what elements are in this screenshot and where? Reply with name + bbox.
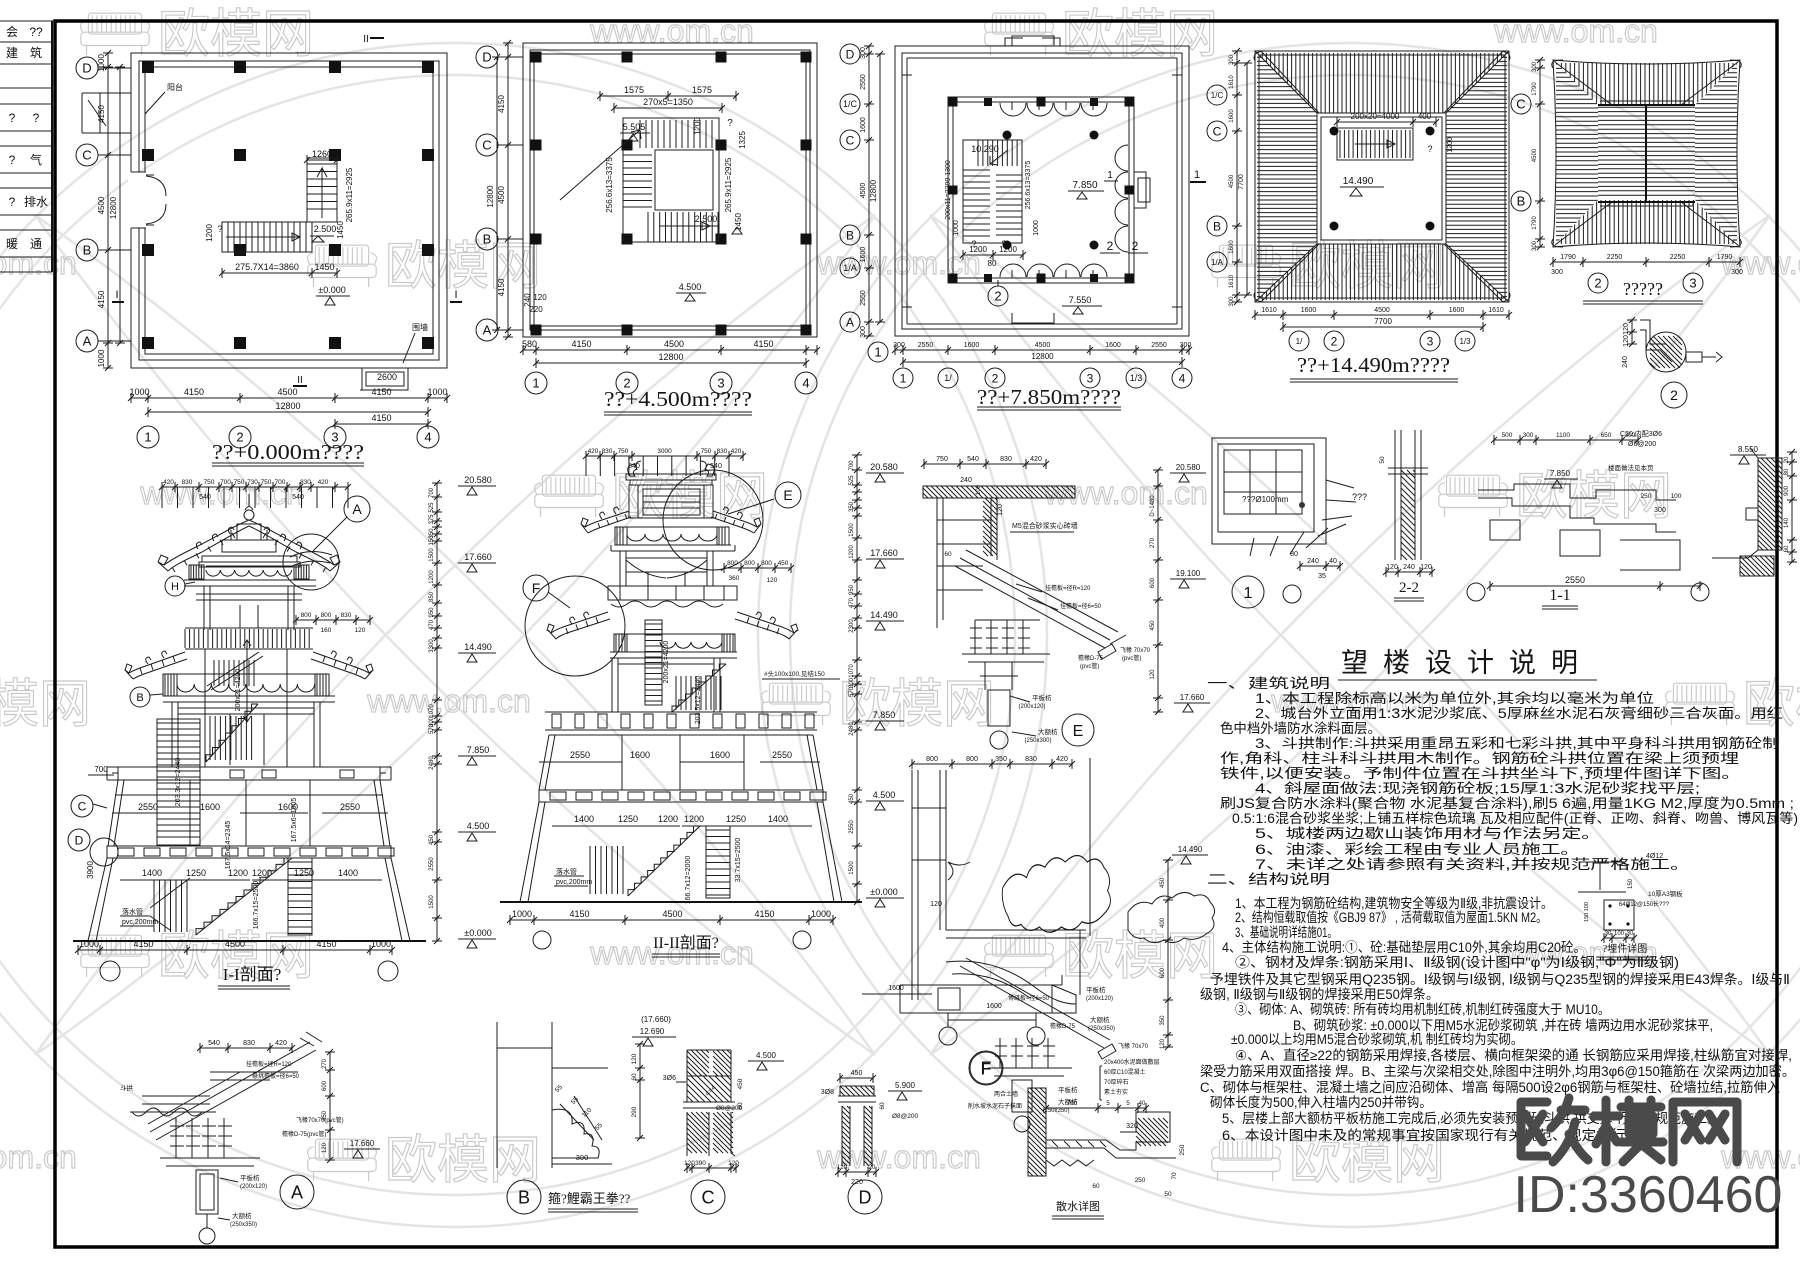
svg-text:1600: 1600 [200, 802, 220, 812]
svg-text:1200: 1200 [849, 545, 855, 559]
watermark circles [0, 43, 1047, 1227]
svg-text:20x400水泥面做敷层: 20x400水泥面做敷层 [1104, 1058, 1160, 1066]
left title strip [51, 21, 53, 272]
elevation I-I section [68, 475, 496, 989]
svg-text:420: 420 [588, 448, 599, 455]
svg-text:4500: 4500 [497, 186, 506, 204]
svg-text:2、城台外立面用1:3水泥沙浆底、5厚麻丝水泥石灰膏细砂三合: 2、城台外立面用1:3水泥沙浆底、5厚麻丝水泥石灰膏细砂三合灰面。用红 [1255, 705, 1783, 721]
svg-text:1070: 1070 [429, 704, 435, 718]
svg-text:80: 80 [1290, 551, 1298, 558]
svg-text:1400: 1400 [338, 868, 358, 878]
svg-text:斗拱: 斗拱 [120, 1083, 134, 1092]
svg-text:2480: 2480 [849, 722, 855, 736]
svg-text:800: 800 [727, 560, 738, 567]
svg-text:120: 120 [355, 627, 366, 634]
svg-text:筑: 筑 [30, 45, 42, 60]
svg-text:1500: 1500 [429, 895, 435, 909]
svg-text:700: 700 [429, 487, 435, 498]
svg-text:1450: 1450 [734, 213, 743, 231]
svg-text:1000: 1000 [1033, 220, 1040, 236]
svg-text:1/3: 1/3 [1459, 337, 1471, 346]
svg-text:80: 80 [1784, 468, 1790, 475]
svg-text:7.850: 7.850 [873, 710, 896, 720]
big site logo (hand-drawn strokes) [1521, 1098, 1737, 1162]
svg-text:1400: 1400 [142, 868, 162, 878]
svg-text:飞椽70x70(pvc管): 飞椽70x70(pvc管) [296, 1116, 344, 1124]
svg-text:欧模网: 欧模网 [839, 676, 995, 734]
svg-text:470: 470 [429, 619, 435, 630]
svg-text:作,角科、柱斗科斗拱用木制作。钢筋砼斗拱位置在梁上须预埋: 作,角科、柱斗科斗拱用木制作。钢筋砼斗拱位置在梁上须预埋 [1220, 750, 1739, 766]
svg-text:200x21=4200: 200x21=4200 [235, 669, 242, 712]
svg-text:1100: 1100 [1556, 432, 1570, 439]
svg-text:300: 300 [1551, 269, 1563, 276]
svg-text:D~1480: D~1480 [1150, 495, 1156, 517]
svg-text:200x20=4000: 200x20=4000 [1351, 112, 1400, 121]
svg-text:450: 450 [322, 1110, 328, 1121]
svg-text:欧模网: 欧模网 [612, 468, 768, 526]
svg-text:1000: 1000 [953, 220, 960, 236]
svg-text:150: 150 [429, 535, 435, 546]
svg-text:平板枋: 平板枋 [1032, 693, 1052, 702]
svg-text:1450: 1450 [336, 221, 345, 239]
svg-text:1000: 1000 [129, 387, 149, 397]
svg-text:C: C [1213, 124, 1222, 138]
svg-text:60: 60 [879, 1102, 886, 1110]
svg-text:2550: 2550 [429, 857, 435, 871]
svg-text:120: 120 [930, 901, 942, 908]
svg-text:气: 气 [30, 152, 42, 167]
svg-text:450: 450 [737, 1078, 744, 1089]
svg-text:飞椽 70x70: 飞椽 70x70 [1118, 1042, 1149, 1050]
svg-text:14.490: 14.490 [1343, 176, 1374, 187]
svg-text:12.690: 12.690 [640, 1027, 665, 1036]
svg-text:C: C [702, 1188, 715, 1208]
svg-text:240: 240 [1403, 564, 1415, 571]
svg-text:700: 700 [849, 460, 855, 471]
svg-text:800: 800 [321, 612, 332, 619]
svg-text:1/C: 1/C [843, 99, 858, 109]
svg-text:??+4.500m????: ??+4.500m???? [604, 387, 752, 411]
svg-text:4: 4 [424, 430, 431, 445]
svg-text:900: 900 [1784, 485, 1790, 496]
svg-text:??: ?? [29, 25, 43, 39]
svg-text:4.500: 4.500 [756, 1051, 777, 1060]
svg-text:一、建筑说明: 一、建筑说明 [1207, 676, 1330, 691]
svg-text:(250x350): (250x350) [1088, 1026, 1115, 1032]
svg-text:1600: 1600 [1105, 342, 1121, 349]
svg-text:?: ? [727, 118, 733, 129]
svg-text:www.om.cn: www.om.cn [1493, 13, 1658, 49]
svg-text:②、钢材及焊条:钢筋采用Ⅰ、Ⅱ级钢(设计图中"φ"为Ⅰ级钢,: ②、钢材及焊条:钢筋采用Ⅰ、Ⅱ级钢(设计图中"φ"为Ⅰ级钢,"Φ"为Ⅱ级钢) [1235, 954, 1679, 970]
svg-text:300: 300 [860, 47, 867, 59]
svg-text:1200: 1200 [658, 814, 678, 824]
svg-text:(17.660): (17.660) [641, 1015, 671, 1024]
svg-text:1070: 1070 [849, 664, 855, 678]
svg-text:欧模网: 欧模网 [0, 676, 91, 734]
svg-text:4.500: 4.500 [873, 790, 896, 800]
svg-text:17.660: 17.660 [1180, 693, 1205, 702]
svg-text:散水详图: 散水详图 [1056, 1199, 1100, 1213]
svg-text:Ø8@200: Ø8@200 [716, 1105, 742, 1112]
svg-text:30: 30 [1605, 931, 1612, 937]
svg-text:B、砌筑砂浆: ±0.000以下用M5水泥砂浆砌筑 ,并在砖: B、砌筑砂浆: ±0.000以下用M5水泥砂浆砌筑 ,并在砖 墙两边用水泥砂浆抹… [1293, 1018, 1713, 1033]
svg-text:箍?鯉霸王拳??: 箍?鯉霸王拳?? [548, 1191, 631, 1206]
svg-text:2300: 2300 [849, 619, 855, 633]
svg-text:8.550: 8.550 [1738, 445, 1759, 454]
svg-text:500: 500 [1502, 432, 1513, 439]
svg-text:2550: 2550 [1565, 575, 1585, 585]
svg-text:2-2: 2-2 [1399, 580, 1419, 596]
plan5 upper roof plan [1550, 60, 1743, 304]
svg-text:600: 600 [322, 1080, 328, 1091]
svg-text:pvc,200mm: pvc,200mm [122, 919, 158, 926]
svg-text:ID:3360460: ID:3360460 [1514, 1166, 1783, 1224]
svg-text:12800: 12800 [109, 196, 118, 219]
svg-text:0.5:1:6混合砂浆坐浆;上铺五样棕色琉璃 瓦及相应配件(: 0.5:1:6混合砂浆坐浆;上铺五样棕色琉璃 瓦及相应配件(正脊、正吻、斜脊、吻… [1232, 810, 1798, 826]
svg-text:120: 120 [728, 1160, 739, 1167]
svg-text:4150: 4150 [754, 909, 774, 919]
svg-text:挂檐板=径R=120: 挂檐板=径R=120 [246, 1060, 292, 1068]
svg-text:大额枋: 大额枋 [232, 1211, 252, 1220]
svg-text:17.660: 17.660 [870, 548, 898, 558]
svg-text:D: D [859, 1188, 872, 1208]
svg-text:580: 580 [522, 339, 537, 349]
svg-text:C: C [482, 138, 491, 153]
svg-text:12800: 12800 [658, 352, 683, 362]
svg-text:欧模网: 欧模网 [158, 6, 314, 64]
svg-text:830: 830 [717, 448, 728, 455]
svg-text:80: 80 [988, 259, 997, 268]
svg-text:525: 525 [429, 502, 435, 513]
svg-text:1450: 1450 [314, 262, 334, 272]
svg-text:300: 300 [1229, 54, 1235, 65]
svg-text:1600: 1600 [986, 1003, 1002, 1010]
svg-text:檐椽D-75: 檐椽D-75 [1050, 1022, 1076, 1030]
svg-text:70厚碎石: 70厚碎石 [1104, 1078, 1129, 1086]
svg-text:300: 300 [849, 677, 855, 688]
svg-text:375: 375 [429, 514, 435, 525]
svg-text:800: 800 [926, 756, 938, 763]
svg-text:1250: 1250 [618, 814, 638, 824]
svg-text:1000: 1000 [512, 909, 532, 919]
svg-text:A: A [483, 323, 492, 338]
svg-text:270: 270 [1150, 537, 1156, 548]
svg-text:2250: 2250 [1607, 254, 1623, 261]
svg-text:167.5x6=1005: 167.5x6=1005 [291, 798, 298, 843]
plan4 left grid chain [1207, 85, 1227, 105]
svg-text:4150: 4150 [97, 105, 106, 123]
svg-text:平板枋: 平板枋 [240, 1173, 260, 1182]
svg-text:??+14.490m????: ??+14.490m???? [1297, 353, 1450, 377]
svg-text:70: 70 [1171, 1172, 1178, 1180]
svg-text:540: 540 [710, 463, 722, 470]
svg-text:2250: 2250 [1670, 254, 1686, 261]
svg-text:D: D [482, 50, 491, 65]
svg-text:4150: 4150 [371, 387, 391, 397]
detail C column base [663, 1050, 784, 1214]
svg-text:270x5=1350: 270x5=1350 [643, 97, 693, 107]
svg-text:大额枋: 大额枋 [1090, 1015, 1110, 1024]
svg-text:450: 450 [849, 793, 855, 804]
svg-text:420: 420 [318, 479, 329, 486]
svg-text:250: 250 [1135, 1177, 1146, 1184]
svg-text:1790: 1790 [1532, 82, 1538, 96]
svg-text:1250: 1250 [186, 868, 206, 878]
svg-text:3300: 3300 [429, 639, 435, 653]
svg-text:265.9x11=2925: 265.9x11=2925 [724, 157, 733, 212]
svg-text:1/: 1/ [944, 373, 952, 383]
svg-text:450: 450 [1160, 877, 1166, 888]
svg-text:A: A [846, 315, 854, 329]
svg-text:(pvc管): (pvc管) [1122, 654, 1141, 662]
svg-text:64Ø12@150长???: 64Ø12@150长??? [1619, 900, 1670, 908]
svg-text:1600: 1600 [1229, 240, 1235, 254]
svg-text:7700: 7700 [1238, 174, 1245, 190]
svg-text:270: 270 [322, 1058, 328, 1069]
svg-text:楼面做法见本页: 楼面做法见本页 [1608, 463, 1654, 472]
svg-text:1575: 1575 [692, 85, 712, 95]
svg-text:D: D [846, 47, 855, 61]
svg-text:300: 300 [893, 342, 905, 349]
svg-text:120: 120 [1160, 1038, 1166, 1049]
svg-text:570: 570 [849, 686, 855, 697]
svg-text:120: 120 [631, 1053, 638, 1064]
svg-text:刷JS复合防水涂料(聚合物 水泥基复合涂料),刷5 6遍,用: 刷JS复合防水涂料(聚合物 水泥基复合涂料),刷5 6遍,用量1KG M2,厚度… [1220, 795, 1794, 811]
svg-text:1/: 1/ [1296, 337, 1303, 346]
svg-text:33.7x15=2500: 33.7x15=2500 [735, 838, 742, 883]
svg-text:4.500: 4.500 [679, 282, 702, 292]
svg-text:II: II [363, 34, 369, 45]
svg-text:落水管: 落水管 [122, 907, 143, 916]
svg-text:830: 830 [341, 612, 352, 619]
svg-text:2: 2 [1331, 334, 1338, 348]
svg-text:4: 4 [1179, 371, 1186, 385]
svg-text:?: ? [33, 111, 40, 125]
watermark tiles [81, 13, 150, 55]
svg-text:?: ? [9, 111, 16, 125]
detail 2 ridge section [1622, 317, 1722, 408]
svg-text:3Ø6: 3Ø6 [663, 1075, 676, 1082]
svg-text:(200x120): (200x120) [1086, 996, 1113, 1002]
detail A dougong eave [120, 1032, 380, 1244]
svg-text:120: 120 [1623, 335, 1630, 347]
svg-text:100: 100 [1614, 931, 1625, 937]
svg-text:1/A: 1/A [843, 263, 857, 273]
svg-text:830: 830 [602, 448, 613, 455]
svg-text:60: 60 [1784, 545, 1790, 552]
svg-text:平板枋: 平板枋 [1058, 1085, 1078, 1094]
svg-text:300: 300 [1532, 240, 1538, 251]
sanshui apron detail [968, 1058, 1186, 1219]
svg-text:4500: 4500 [97, 196, 106, 214]
svg-text:540: 540 [199, 494, 211, 501]
svg-text:950: 950 [429, 607, 435, 618]
svg-text:1、本工程除标高以米为单位外,其余均以毫米为单位: 1、本工程除标高以米为单位外,其余均以毫米为单位 [1255, 690, 1654, 706]
svg-text:470: 470 [849, 597, 855, 608]
svg-text:4: 4 [802, 376, 809, 391]
svg-text:275.7X14=3860: 275.7X14=3860 [235, 262, 299, 272]
svg-text:4150: 4150 [133, 939, 153, 949]
svg-text:排水: 排水 [24, 195, 48, 209]
svg-text:4500: 4500 [1229, 174, 1235, 188]
svg-text:4Ø12: 4Ø12 [1646, 853, 1663, 860]
svg-text:1: 1 [532, 376, 539, 391]
svg-text:(250x300): (250x300) [1024, 738, 1051, 744]
svg-text:150: 150 [1628, 878, 1634, 889]
svg-text:800: 800 [761, 560, 772, 567]
svg-text:www.om.cn: www.om.cn [0, 1139, 77, 1175]
svg-text:7700: 7700 [1374, 317, 1392, 326]
svg-text:800: 800 [966, 756, 978, 763]
svg-text:1600: 1600 [860, 247, 867, 263]
svg-text:檐椽D-75(pvc管): 檐椽D-75(pvc管) [282, 1130, 326, 1138]
svg-text:4150: 4150 [497, 278, 506, 296]
svg-text:C: C [78, 799, 87, 813]
detail F wall/eave section [862, 756, 1215, 1132]
svg-text:二、结构说明: 二、结构说明 [1207, 872, 1330, 887]
svg-text:1: 1 [144, 430, 151, 445]
detail F beam joint [900, 975, 1115, 1085]
svg-text:265.9x11=2925: 265.9x11=2925 [345, 167, 354, 222]
svg-text:±0.000: ±0.000 [318, 285, 345, 295]
svg-text:12800: 12800 [869, 179, 878, 202]
svg-text:19.100: 19.100 [1176, 569, 1201, 578]
svg-text:20: 20 [869, 1165, 876, 1171]
svg-text:120: 120 [684, 1160, 695, 1167]
svg-text:1000: 1000 [427, 387, 447, 397]
svg-text:20.580: 20.580 [464, 475, 492, 485]
svg-text:1260: 1260 [312, 149, 332, 159]
plan2 +4.500 floor [476, 40, 820, 415]
plan4 roof plan [1252, 51, 1512, 382]
elevation II-II section [500, 448, 904, 957]
svg-text:挂檐板=径6=50: 挂檐板=径6=50 [1060, 602, 1102, 610]
svg-text:4500: 4500 [225, 939, 245, 949]
svg-text:540: 540 [292, 494, 304, 501]
svg-text:欧模网: 欧模网 [1743, 676, 1800, 734]
svg-text:350: 350 [849, 501, 855, 512]
svg-text:60厚C10混凝土: 60厚C10混凝土 [1104, 1068, 1146, 1076]
svg-text:1500: 1500 [429, 548, 435, 562]
svg-text:1: 1 [1107, 170, 1113, 181]
svg-text:2550: 2550 [860, 290, 867, 306]
detail B bawangquan [497, 1015, 676, 1214]
svg-text:1200: 1200 [429, 570, 435, 584]
svg-text:250: 250 [1179, 1144, 1186, 1155]
svg-text:C: C [82, 148, 91, 163]
svg-text:850: 850 [429, 591, 435, 602]
svg-text:830: 830 [1000, 456, 1012, 463]
svg-text:2550: 2550 [918, 342, 934, 349]
svg-text:10.290: 10.290 [971, 144, 999, 154]
svg-text:750: 750 [204, 479, 215, 486]
svg-text:4500: 4500 [860, 183, 867, 199]
svg-text:150 100: 150 100 [1584, 902, 1590, 922]
svg-text:I: I [454, 289, 457, 301]
svg-text:?: ? [1001, 239, 1006, 249]
svg-text:120: 120 [1623, 323, 1630, 335]
svg-text:7.850: 7.850 [467, 745, 490, 755]
svg-text:(250x350): (250x350) [1042, 1108, 1069, 1114]
svg-text:1610: 1610 [1229, 274, 1235, 288]
svg-text:1000: 1000 [371, 939, 391, 949]
svg-text:1500: 1500 [849, 861, 855, 875]
svg-text:E: E [783, 487, 792, 503]
svg-text:50: 50 [1164, 1191, 1172, 1198]
svg-text:120: 120 [837, 1165, 848, 1171]
svg-text:?埋件详图: ?埋件详图 [1603, 942, 1647, 955]
svg-text:II-II剖面?: II-II剖面? [653, 934, 719, 952]
svg-text:2.500: 2.500 [695, 214, 718, 224]
svg-text:1790: 1790 [1560, 254, 1576, 261]
svg-text:A: A [83, 334, 92, 349]
svg-text:www.om.cn: www.om.cn [589, 13, 754, 49]
svg-text:1200: 1200 [693, 117, 702, 135]
svg-text:削水坡水泥石子抹面: 削水坡水泥石子抹面 [968, 1102, 1022, 1110]
svg-text:(250x350): (250x350) [230, 1222, 257, 1228]
svg-text:B: B [846, 228, 854, 242]
svg-text:素土夯实: 素土夯实 [1104, 1088, 1128, 1096]
svg-text:1500: 1500 [849, 523, 855, 537]
svg-text:3、斗拱制作:斗拱采用重昂五彩和七彩斗拱,其中平身科斗拱用钢: 3、斗拱制作:斗拱采用重昂五彩和七彩斗拱,其中平身科斗拱用钢筋砼制 [1255, 735, 1779, 751]
svg-text:pvc,200mm: pvc,200mm [556, 879, 592, 886]
svg-text:F: F [981, 1059, 992, 1079]
svg-text:1600: 1600 [710, 750, 730, 760]
svg-text:600: 600 [1150, 577, 1156, 588]
svg-text:2: 2 [1132, 239, 1139, 253]
svg-text:平板枋: 平板枋 [1086, 985, 1106, 994]
svg-text:420: 420 [275, 1040, 287, 1047]
svg-text:40: 40 [1139, 1101, 1146, 1107]
svg-text:20.580: 20.580 [1176, 463, 1201, 472]
svg-text:2550: 2550 [1151, 342, 1167, 349]
detail 2-2 column [1379, 430, 1435, 601]
svg-text:3000: 3000 [657, 448, 672, 455]
svg-text:750: 750 [936, 456, 948, 463]
svg-text:飞椽 70x70: 飞椽 70x70 [1120, 646, 1151, 654]
svg-text:35: 35 [1318, 573, 1326, 580]
svg-text:???Ø100mm: ???Ø100mm [1242, 495, 1289, 504]
svg-text:540: 540 [208, 1040, 220, 1047]
svg-text:300: 300 [576, 1153, 589, 1162]
detail 1 window corner [1212, 438, 1367, 608]
svg-text:7.850: 7.850 [1072, 180, 1097, 191]
svg-text:Ø8@200: Ø8@200 [892, 1113, 918, 1120]
svg-text:750: 750 [618, 448, 629, 455]
svg-text:1000: 1000 [97, 54, 106, 72]
svg-text:予埋铁件及其它型钢采用Q235钢。Ⅰ级钢与Ⅰ级钢, Ⅰ级钢与: 予埋铁件及其它型钢采用Q235钢。Ⅰ级钢与Ⅰ级钢, Ⅰ级钢与Q235型钢的焊接采… [1210, 971, 1790, 987]
svg-text:60: 60 [944, 551, 952, 558]
svg-text:5.505: 5.505 [623, 122, 646, 132]
svg-text:4150: 4150 [371, 413, 391, 423]
svg-text:C: C [846, 133, 855, 147]
svg-text:1600: 1600 [630, 750, 650, 760]
svg-text:420: 420 [1056, 756, 1068, 763]
svg-text:6、油漆、彩绘工程由专业人员施工。: 6、油漆、彩绘工程由专业人员施工。 [1255, 842, 1580, 857]
svg-text:1/3: 1/3 [1130, 373, 1143, 383]
svg-text:2550: 2550 [860, 74, 867, 90]
svg-text:B: B [1213, 219, 1221, 233]
svg-text:4、主体结构施工说明:①、砼:基础垫层用C10外,其余均用C: 4、主体结构施工说明:①、砼:基础垫层用C10外,其余均用C20砼。 [1222, 939, 1586, 955]
svg-text:800: 800 [301, 612, 312, 619]
svg-text:1250: 1250 [726, 814, 746, 824]
svg-text:?: ? [9, 153, 16, 167]
svg-text:4、斜屋面做法:现浇钢筋砼板;15厚1:3水泥砂浆找平层;: 4、斜屋面做法:现浇钢筋砼板;15厚1:3水泥砂浆找平层; [1255, 780, 1700, 796]
svg-text:F: F [532, 580, 541, 596]
svg-text:450: 450 [778, 560, 789, 567]
svg-text:830: 830 [243, 1040, 255, 1047]
svg-text:700: 700 [1067, 1101, 1078, 1107]
